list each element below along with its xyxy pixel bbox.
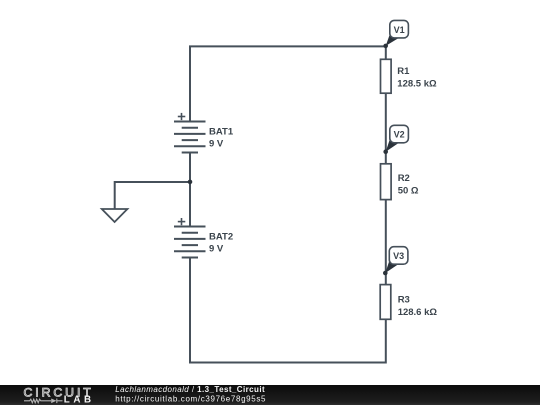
logo diode triangle <box>51 399 56 404</box>
wire left vertical top (node V1 net) <box>189 46 191 121</box>
battery BAT1 <box>174 122 206 153</box>
resistor R2 <box>381 164 392 200</box>
node V1 junction <box>383 44 388 49</box>
svg-text:R2: R2 <box>398 173 410 184</box>
svg-text:R3: R3 <box>398 294 410 305</box>
battery BAT1 labels <box>209 126 234 149</box>
svg-text:V2: V2 <box>394 130 405 140</box>
resistor R3 labels <box>398 294 438 318</box>
svg-text:R1: R1 <box>397 66 410 77</box>
wire R3 to bottom <box>385 319 387 363</box>
node V2 junction <box>383 149 388 154</box>
probe label V1 <box>390 20 409 38</box>
footer bar <box>0 385 540 405</box>
wire junction to BAT2 <box>189 181 191 227</box>
resistor R1 <box>381 59 392 93</box>
svg-text:50 Ω: 50 Ω <box>398 186 419 197</box>
wire R2 to R3 (node V3 net) <box>385 200 387 285</box>
probe label V3 <box>389 247 408 265</box>
wire ground horizontal <box>115 181 190 183</box>
probe flag pointer V1 <box>386 32 400 46</box>
probe label V2 <box>390 125 409 143</box>
wire bottom horizontal <box>189 362 386 364</box>
resistor R3 <box>380 285 391 320</box>
svg-text:9 V: 9 V <box>209 139 224 150</box>
battery BAT2 plus sign <box>178 218 186 225</box>
ground symbol <box>102 209 128 222</box>
wire BAT1 to ground junction <box>189 153 191 183</box>
junction ground node <box>188 180 193 185</box>
probe flag pointer V2 <box>386 137 400 151</box>
svg-text:128.5 kΩ: 128.5 kΩ <box>397 78 437 89</box>
probe flag pointer V3 <box>385 259 399 273</box>
resistor R1 labels <box>397 66 437 90</box>
svg-text:V1: V1 <box>394 25 405 35</box>
resistor R2 labels <box>398 173 419 197</box>
wire V1 stub to R1 <box>385 45 387 59</box>
svg-text:LAB: LAB <box>64 394 95 405</box>
svg-text:BAT2: BAT2 <box>209 232 233 243</box>
svg-text:http://circuitlab.com/c3976e78: http://circuitlab.com/c3976e78g95s5 <box>115 395 266 404</box>
svg-text:Lachlanmacdonald / 1.3_Test_Ci: Lachlanmacdonald / 1.3_Test_Circuit <box>115 385 265 394</box>
battery BAT2 labels <box>209 232 233 255</box>
wire top horizontal <box>189 45 386 47</box>
logo resistor zigzag and diode squiggle <box>24 399 63 404</box>
wire ground stub <box>114 181 116 209</box>
battery BAT2 <box>174 227 206 258</box>
svg-text:9 V: 9 V <box>209 244 224 255</box>
node V3 junction <box>383 271 388 276</box>
svg-text:BAT1: BAT1 <box>209 126 234 137</box>
wire BAT2 to bottom <box>189 258 191 364</box>
wire R1 to R2 (node V2 net) <box>385 93 387 164</box>
svg-text:128.6 kΩ: 128.6 kΩ <box>398 307 438 318</box>
svg-text:V3: V3 <box>393 251 404 261</box>
battery BAT1 plus sign <box>178 113 186 120</box>
